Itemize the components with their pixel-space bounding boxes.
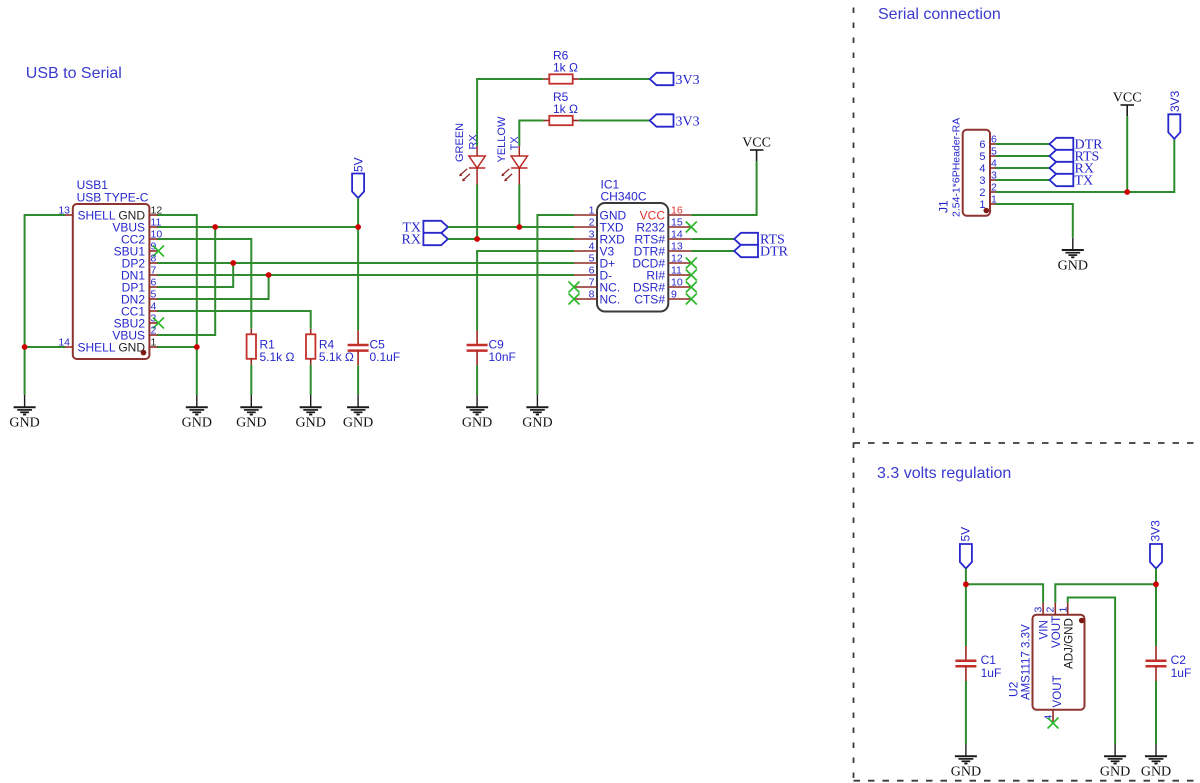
net flag RX bbox=[423, 233, 448, 245]
svg-text:2: 2 bbox=[151, 325, 157, 337]
capacitor C1 bbox=[955, 646, 976, 681]
wire: J1 pin4 to RX flag bbox=[996, 167, 1050, 169]
svg-text:USB TYPE-C: USB TYPE-C bbox=[77, 191, 149, 205]
svg-text:6: 6 bbox=[979, 139, 985, 151]
svg-text:5V: 5V bbox=[958, 527, 972, 542]
net flag TX bbox=[423, 221, 448, 233]
svg-text:NC.: NC. bbox=[600, 293, 621, 307]
ground (C9) bbox=[462, 395, 492, 431]
svg-text:YELLOW: YELLOW bbox=[496, 116, 508, 162]
J1 pin 4 bbox=[979, 158, 997, 176]
net flag DTR bbox=[734, 245, 758, 257]
wire: R6 to 3V3 bbox=[579, 78, 650, 80]
svg-text:2.54-1*6PHeader-RA: 2.54-1*6PHeader-RA bbox=[951, 118, 963, 217]
node: VCC/J1 pin2 junction bbox=[1124, 189, 1130, 195]
IC1 pin 8 NC bbox=[569, 289, 621, 307]
svg-text:5: 5 bbox=[589, 253, 595, 265]
svg-text:3: 3 bbox=[589, 229, 595, 241]
U2 pin1 marker dot bbox=[1079, 618, 1085, 624]
svg-text:RX: RX bbox=[467, 134, 479, 150]
wire: VCC down to pin2 rail bbox=[1126, 116, 1128, 192]
IC1 pin 5 D+ bbox=[574, 253, 615, 271]
node: vbus pin2 junction bbox=[212, 224, 218, 230]
svg-text:SHELL: SHELL bbox=[78, 209, 116, 223]
J1 pin 2 bbox=[979, 182, 997, 200]
wire: VBUS pin2 riser bbox=[157, 227, 215, 335]
pin 4 CC1 bbox=[121, 301, 157, 319]
svg-text:CTS#: CTS# bbox=[634, 293, 665, 307]
wire: USB GND pin1 bbox=[157, 346, 197, 348]
pin 5 DN2 bbox=[121, 289, 157, 307]
svg-text:SHELL: SHELL bbox=[78, 341, 116, 355]
svg-text:10: 10 bbox=[151, 229, 163, 241]
wire: SHELL pin13 to GND rail left bbox=[25, 215, 65, 395]
svg-text:5.1k Ω: 5.1k Ω bbox=[260, 350, 295, 364]
svg-text:7: 7 bbox=[589, 277, 595, 289]
J1 pin 6 bbox=[979, 134, 997, 152]
pin 8 DP2 bbox=[122, 253, 158, 271]
wire: J1 pin3 to TX flag bbox=[996, 179, 1050, 181]
wire: yellow LED cathode to TXD bbox=[518, 185, 520, 228]
svg-text:14: 14 bbox=[671, 229, 683, 241]
svg-text:4: 4 bbox=[979, 163, 985, 175]
node: 5V/C1/VIN junction bbox=[963, 581, 969, 587]
svg-text:2: 2 bbox=[979, 187, 985, 199]
wire: VBUS rail down to C5 bbox=[357, 227, 359, 330]
wire: CC1 to R4 bbox=[157, 311, 311, 329]
ground (IC1) bbox=[522, 395, 552, 431]
wire: TX flag to TXD bbox=[448, 226, 574, 228]
J1 pin1 marker dot bbox=[984, 208, 990, 214]
IC1 pin 16 VCC bbox=[640, 205, 692, 223]
power VCC (IC) bbox=[742, 136, 771, 162]
pin 6 DP1 bbox=[122, 277, 158, 295]
pin 1 GND bbox=[118, 337, 157, 355]
IC1 pin 7 NC bbox=[569, 277, 621, 295]
pin 14 SHELL bbox=[58, 337, 116, 355]
svg-text:5.1k Ω: 5.1k Ω bbox=[319, 350, 354, 364]
pin 13 SHELL bbox=[58, 205, 116, 223]
svg-text:4: 4 bbox=[589, 241, 595, 253]
net flag RTS (J1) bbox=[1050, 150, 1074, 162]
svg-text:VCC: VCC bbox=[742, 136, 771, 151]
ground (R1) bbox=[236, 395, 266, 431]
regulator U2 AMS1117-3.3 body bbox=[1033, 615, 1085, 710]
svg-text:1: 1 bbox=[589, 205, 595, 217]
svg-text:J1: J1 bbox=[937, 200, 951, 213]
power VCC (J1) bbox=[1113, 91, 1142, 117]
wire: 5V down through C1 bbox=[965, 584, 967, 646]
wire: J1 pin6 to DTR flag bbox=[996, 143, 1050, 145]
svg-text:3V3: 3V3 bbox=[1168, 90, 1182, 112]
svg-text:1uF: 1uF bbox=[1171, 666, 1192, 680]
pin 2 VBUS bbox=[112, 325, 157, 343]
wire: J1 pin5 to RTS flag bbox=[996, 155, 1050, 157]
wire: green LED cathode to RXD bbox=[476, 185, 478, 240]
LED green RX bbox=[459, 146, 485, 185]
node: DP1/DP2 junction bbox=[230, 260, 236, 266]
svg-text:11: 11 bbox=[671, 265, 682, 277]
svg-text:4: 4 bbox=[151, 301, 157, 313]
IC1 pin 15 R232 (nc) bbox=[636, 217, 696, 235]
resistor R1 bbox=[247, 329, 256, 365]
frame: vertical dashed separator bbox=[853, 0, 855, 783]
U2 pin 4 VOUT (nc) bbox=[1043, 675, 1064, 728]
IC1 pin 11 RI# (nc) bbox=[646, 265, 696, 283]
net flag 3V3 (R6) bbox=[650, 73, 674, 85]
svg-text:3.3 volts regulation: 3.3 volts regulation bbox=[877, 465, 1011, 482]
svg-text:RX: RX bbox=[402, 233, 421, 248]
node: shell-gnd junction bbox=[22, 344, 28, 350]
svg-text:1uF: 1uF bbox=[981, 666, 1002, 680]
svg-text:C2: C2 bbox=[1171, 653, 1187, 667]
svg-text:1: 1 bbox=[151, 337, 157, 349]
J1 pin 3 bbox=[979, 170, 997, 188]
pin 7 DN1 bbox=[121, 265, 157, 283]
U2 pin 3 VIN bbox=[1033, 603, 1051, 640]
svg-text:U2: U2 bbox=[1007, 681, 1021, 697]
node: DN1/DN2 junction bbox=[266, 272, 272, 278]
svg-text:8: 8 bbox=[589, 289, 595, 301]
wire: RTS# to flag bbox=[691, 238, 734, 240]
U2 pin 2 VOUT bbox=[1045, 603, 1063, 648]
svg-text:2: 2 bbox=[589, 217, 595, 229]
svg-text:6: 6 bbox=[151, 277, 157, 289]
wire: V3 to C9 bbox=[477, 251, 574, 330]
svg-text:DTR: DTR bbox=[760, 245, 789, 260]
wire: green LED anode from R6 bbox=[477, 79, 543, 146]
svg-text:13: 13 bbox=[58, 205, 70, 217]
wire: 5V to VBUS rail bbox=[357, 198, 359, 227]
ground (ADJ) bbox=[1100, 744, 1130, 780]
svg-text:11: 11 bbox=[151, 217, 162, 229]
svg-text:VOUT: VOUT bbox=[1051, 675, 1064, 707]
net flag RTS bbox=[734, 233, 758, 245]
IC1 pin 12 DCD# (nc) bbox=[632, 253, 696, 271]
net flag TX (J1) bbox=[1050, 174, 1074, 186]
wire: VOUT rail to 3V3 bbox=[1055, 584, 1156, 603]
IC1 pin 3 RXD bbox=[574, 229, 625, 247]
IC1 pin 4 V3 bbox=[574, 241, 615, 259]
wire: C5 to ground bbox=[357, 365, 359, 395]
svg-text:5: 5 bbox=[979, 151, 985, 163]
IC1 pin 10 DSR# (nc) bbox=[633, 277, 697, 295]
svg-text:10: 10 bbox=[671, 277, 683, 289]
svg-text:7: 7 bbox=[151, 265, 157, 277]
wire: 5V down to C1 junction bbox=[965, 569, 967, 585]
svg-text:USB to Serial: USB to Serial bbox=[26, 65, 122, 82]
svg-text:3V3: 3V3 bbox=[676, 114, 700, 129]
net flag 3V3 (R5) bbox=[650, 114, 674, 126]
IC1 pin 6 D- bbox=[574, 265, 612, 283]
svg-text:TX: TX bbox=[1075, 174, 1094, 189]
ground (C5) bbox=[343, 395, 373, 431]
capacitor C9 bbox=[467, 330, 488, 365]
svg-text:5: 5 bbox=[151, 289, 157, 301]
wire: DTR# to flag bbox=[691, 250, 734, 252]
capacitor C2 bbox=[1146, 646, 1167, 681]
svg-text:AMS1117 3.3V: AMS1117 3.3V bbox=[1021, 624, 1033, 700]
svg-text:CH340C: CH340C bbox=[601, 190, 647, 204]
net flag 3V3 (J1, vertical) bbox=[1168, 114, 1180, 139]
svg-text:3: 3 bbox=[979, 175, 985, 187]
svg-text:3: 3 bbox=[1033, 607, 1045, 613]
wire: DN2 riser bbox=[157, 275, 269, 299]
svg-text:1k Ω: 1k Ω bbox=[553, 102, 578, 116]
net flag 3V3 (reg) bbox=[1150, 544, 1162, 569]
wire: RX flag to RXD bbox=[448, 238, 574, 240]
ground (J1) bbox=[1058, 238, 1088, 273]
IC1 pin 14 RTS# bbox=[635, 229, 692, 247]
ground (left shell) bbox=[9, 395, 39, 431]
node: 5V/C5/VBUS junction bbox=[355, 224, 361, 230]
svg-text:GREEN: GREEN bbox=[454, 123, 466, 162]
svg-text:TX: TX bbox=[509, 136, 521, 151]
net flag RX (J1) bbox=[1050, 162, 1074, 174]
wire: C1 to ground bbox=[965, 681, 967, 744]
wire: USB GND pin12 down to ground bbox=[157, 215, 197, 395]
wire: R5 to 3V3 bbox=[579, 120, 650, 122]
wire: J1 pin1 to ground bbox=[996, 204, 1073, 238]
wire: DN1 to IC D- bbox=[157, 274, 574, 276]
svg-text:VIN: VIN bbox=[1038, 620, 1051, 639]
J1 pin 1 bbox=[979, 194, 997, 212]
svg-text:10nF: 10nF bbox=[489, 350, 516, 364]
svg-text:5V: 5V bbox=[352, 157, 366, 172]
svg-text:14: 14 bbox=[58, 337, 70, 349]
wire: 5V rail to VIN bbox=[966, 584, 1043, 603]
frame: horizontal dashed separator mid bbox=[854, 442, 1200, 444]
svg-text:13: 13 bbox=[671, 241, 683, 253]
IC1 pin 2 TXD bbox=[574, 217, 624, 235]
svg-text:1k Ω: 1k Ω bbox=[553, 61, 578, 75]
power flag 5V (reg) bbox=[960, 544, 972, 569]
svg-text:9: 9 bbox=[671, 289, 677, 301]
svg-text:0.1uF: 0.1uF bbox=[370, 350, 401, 364]
wire: VCC to IC pin16 bbox=[691, 161, 756, 215]
pin 11 VBUS bbox=[112, 217, 161, 235]
svg-text:2: 2 bbox=[1045, 607, 1057, 613]
pin 3 SBU2 (nc) bbox=[114, 313, 164, 331]
wire: IC GND pin to ground bbox=[537, 215, 574, 395]
IC1 CH340C body bbox=[597, 203, 668, 312]
svg-text:16: 16 bbox=[671, 205, 683, 217]
USB1 pin1 marker dot bbox=[141, 350, 147, 356]
svg-text:3V3: 3V3 bbox=[1149, 520, 1163, 542]
LED yellow TX bbox=[501, 146, 527, 185]
pin 12 GND bbox=[118, 205, 162, 223]
svg-text:Serial connection: Serial connection bbox=[878, 6, 1001, 23]
node: 3V3/C2/VOUT junction bbox=[1153, 581, 1159, 587]
resistor R4 bbox=[306, 329, 315, 365]
wire: C9 to ground bbox=[476, 365, 478, 395]
ground (C2) bbox=[1141, 744, 1171, 780]
capacitor C5 bbox=[348, 330, 369, 365]
IC1 pin 9 CTS# (nc) bbox=[634, 289, 696, 307]
svg-text:ADJ/GND: ADJ/GND bbox=[1062, 618, 1075, 669]
ground (USB gnd) bbox=[182, 395, 212, 431]
connector USB1 body bbox=[73, 204, 150, 359]
node: usb gnd junction bbox=[194, 344, 200, 350]
svg-text:1: 1 bbox=[1058, 607, 1070, 613]
wire: DP1 riser bbox=[157, 263, 233, 287]
svg-text:3V3: 3V3 bbox=[676, 73, 700, 88]
pin 9 SBU1 (nc) bbox=[114, 241, 164, 259]
wire: VBUS pin11 rail bbox=[157, 226, 358, 228]
svg-text:15: 15 bbox=[671, 217, 683, 229]
wire: CC2 to R1 bbox=[157, 239, 251, 329]
node: RX led/RXD junction bbox=[474, 236, 480, 242]
wire: J1 pin2 to VCC/3V3 bbox=[996, 139, 1175, 192]
net flag DTR (J1) bbox=[1050, 138, 1074, 150]
connector J1 body bbox=[963, 130, 990, 216]
svg-text:6: 6 bbox=[589, 265, 595, 277]
wire: 3V3 down through C2 bbox=[1155, 584, 1157, 646]
frame: horizontal dashed separator bottom bbox=[854, 780, 1200, 782]
pin 10 CC2 bbox=[121, 229, 162, 247]
resistor R5 bbox=[543, 116, 578, 125]
svg-text:8: 8 bbox=[151, 253, 157, 265]
wire: 3V3 down to junction bbox=[1155, 569, 1157, 585]
svg-text:VCC: VCC bbox=[1113, 91, 1142, 106]
svg-text:12: 12 bbox=[151, 205, 163, 217]
wire: SHELL pin14 bbox=[25, 346, 65, 348]
resistor R6 bbox=[543, 74, 578, 83]
node: TX led/TXD junction bbox=[516, 224, 522, 230]
wire: yellow LED anode from R5 bbox=[519, 121, 543, 147]
J1 pin 5 bbox=[979, 146, 997, 164]
wire: DP2 to IC D+ bbox=[157, 262, 574, 264]
ground (C1) bbox=[951, 744, 981, 780]
svg-text:C1: C1 bbox=[981, 653, 997, 667]
wire: ADJ/GND to ground bbox=[1068, 598, 1115, 745]
IC1 pin 13 DTR# bbox=[634, 241, 692, 259]
ground (R4) bbox=[296, 395, 326, 431]
U2 pin 1 ADJ/GND bbox=[1058, 603, 1076, 669]
svg-text:VOUT: VOUT bbox=[1050, 616, 1063, 648]
IC1 pin 1 GND bbox=[574, 205, 627, 223]
svg-text:12: 12 bbox=[671, 253, 683, 265]
wire: C2 to ground bbox=[1155, 681, 1157, 744]
power flag 5V bbox=[352, 174, 364, 199]
